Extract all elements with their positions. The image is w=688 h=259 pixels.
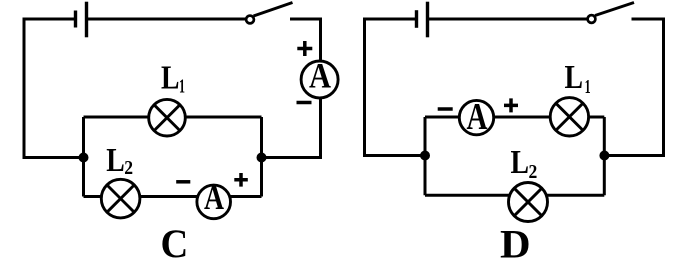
svg-text:A: A [309,56,331,96]
svg-text:L: L [161,59,180,96]
svg-text:L: L [106,142,125,179]
svg-text:1: 1 [585,76,591,98]
svg-text:D: D [500,222,531,259]
svg-text:1: 1 [179,75,185,97]
svg-text:C: C [161,221,189,259]
svg-text:L: L [511,144,530,181]
svg-text:L: L [565,59,584,96]
svg-text:A: A [467,96,488,138]
svg-text:2: 2 [124,157,133,179]
svg-text:A: A [204,178,225,217]
svg-text:2: 2 [529,161,538,183]
